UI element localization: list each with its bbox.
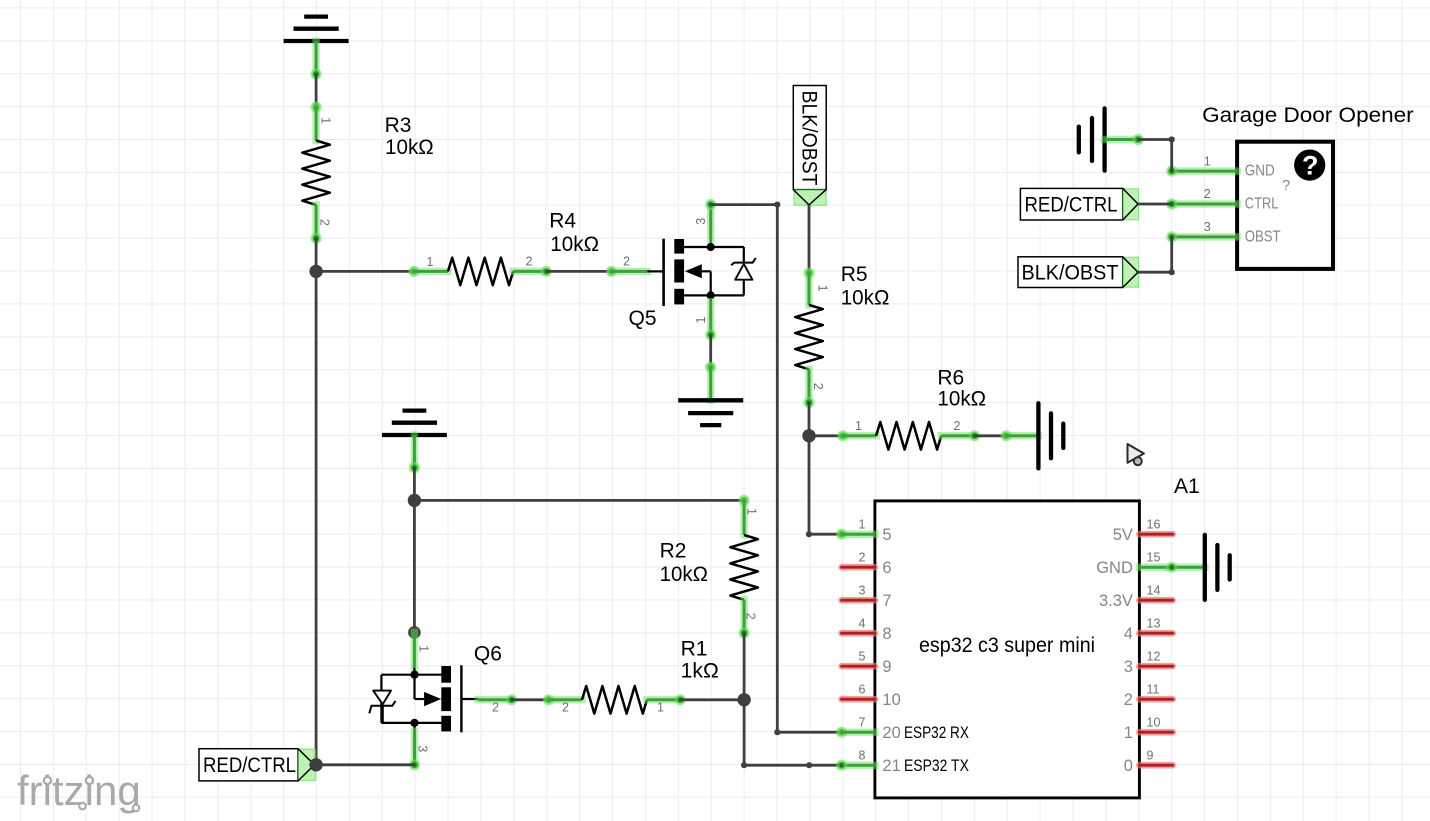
svg-text:5: 5 <box>882 526 891 544</box>
svg-text:R4: R4 <box>549 210 576 233</box>
pin 13 of A1 <box>1139 616 1172 633</box>
wire <box>312 107 320 140</box>
svg-text:16: 16 <box>1147 517 1161 531</box>
svg-text:R1: R1 <box>681 637 708 660</box>
svg-text:?: ? <box>1282 178 1290 194</box>
wire <box>744 760 847 771</box>
ground <box>1079 108 1105 170</box>
transistor Q6 <box>369 665 461 732</box>
svg-text:1: 1 <box>855 419 862 433</box>
pin name 2 <box>1124 691 1133 709</box>
svg-text:15: 15 <box>1147 550 1161 564</box>
wire <box>809 430 849 441</box>
svg-text:?: ? <box>1302 151 1319 181</box>
wire <box>808 436 811 534</box>
pin 2 of garage opener <box>1166 187 1237 209</box>
wire <box>741 700 747 769</box>
pin name 21 <box>882 757 969 775</box>
ground <box>1038 403 1063 468</box>
svg-text:13: 13 <box>1147 616 1161 630</box>
mouse cursor <box>1128 444 1144 465</box>
svg-text:14: 14 <box>1147 583 1161 597</box>
wire <box>316 266 419 277</box>
pin 4 of A1 <box>842 616 875 633</box>
svg-text:1: 1 <box>694 317 708 324</box>
svg-text:Q6: Q6 <box>474 643 502 666</box>
svg-text:RED/CTRL: RED/CTRL <box>1025 193 1118 216</box>
pin name OBST <box>1245 229 1281 246</box>
help icon <box>1294 150 1325 181</box>
pin 1 of garage opener <box>1166 154 1237 176</box>
label R4 10k <box>549 210 599 256</box>
pin 11 of A1 <box>1139 682 1172 699</box>
pin name 3.3V <box>1099 592 1133 610</box>
svg-text:1: 1 <box>858 517 865 531</box>
wire <box>315 271 318 764</box>
pin 3 of A1 <box>842 583 875 600</box>
wire <box>311 41 322 80</box>
pin name 10 <box>882 691 900 709</box>
svg-text:10kΩ: 10kΩ <box>937 387 986 410</box>
net label RED/CTRL <box>1020 188 1138 220</box>
svg-text:4: 4 <box>858 616 865 630</box>
node bendpoint <box>806 531 812 537</box>
wire <box>1138 237 1175 275</box>
svg-text:3: 3 <box>694 218 708 225</box>
svg-text:12: 12 <box>1147 649 1161 663</box>
svg-text:8: 8 <box>858 748 865 762</box>
svg-text:2: 2 <box>744 613 758 620</box>
svg-text:R6: R6 <box>937 367 964 390</box>
pin 1 of R4 <box>414 255 448 271</box>
svg-text:3: 3 <box>415 745 429 752</box>
pin 7 of A1 <box>842 715 875 732</box>
wire <box>409 435 420 473</box>
svg-text:3: 3 <box>1204 220 1211 234</box>
svg-text:10kΩ: 10kΩ <box>550 233 599 256</box>
ground <box>382 411 447 435</box>
svg-text:2: 2 <box>858 550 865 564</box>
svg-text:CTRL: CTRL <box>1245 196 1279 213</box>
pin 2 of R2 <box>739 600 758 639</box>
pin name CTRL <box>1245 196 1279 213</box>
svg-text:RED/CTRL: RED/CTRL <box>203 754 296 777</box>
label R2 10k <box>660 539 708 586</box>
label ? <box>1282 178 1290 194</box>
svg-text:6: 6 <box>858 682 865 696</box>
label R5 10k <box>841 263 890 310</box>
wire <box>316 763 415 766</box>
svg-text:10: 10 <box>882 691 900 709</box>
svg-text:1: 1 <box>1204 154 1211 168</box>
svg-text:A1: A1 <box>1174 475 1200 498</box>
pin name 0 <box>1124 757 1133 775</box>
svg-text:esp32 c3 super mini: esp32 c3 super mini <box>919 634 1095 657</box>
svg-text:OBST: OBST <box>1245 229 1281 246</box>
svg-text:Q5: Q5 <box>629 307 657 330</box>
svg-text:2: 2 <box>1204 187 1211 201</box>
wire <box>808 403 811 436</box>
wire <box>705 335 716 373</box>
pin 6 of A1 <box>842 682 875 699</box>
pin 1 of Q6 <box>414 632 430 674</box>
svg-text:R2: R2 <box>660 539 687 562</box>
net label BLK/OBST <box>1018 257 1139 288</box>
svg-text:3: 3 <box>1124 658 1133 676</box>
svg-text:10kΩ: 10kΩ <box>660 563 708 586</box>
pin 2 of Q5 (gate) <box>612 255 664 272</box>
wire <box>1006 432 1038 440</box>
label R6 10k <box>937 367 986 411</box>
svg-text:R3: R3 <box>385 114 412 137</box>
pin name GND <box>1245 163 1275 180</box>
transistor Q5 <box>664 239 756 306</box>
svg-text:Garage Door Opener: Garage Door Opener <box>1202 104 1414 127</box>
svg-text:ESP32 RX: ESP32 RX <box>904 724 969 742</box>
svg-text:4: 4 <box>1124 625 1133 643</box>
label Garage Door Opener <box>1202 104 1414 127</box>
wire <box>705 199 777 210</box>
svg-text:1: 1 <box>1124 724 1133 742</box>
wire <box>809 529 847 540</box>
wire <box>803 205 814 279</box>
wire <box>311 74 322 113</box>
svg-text:2: 2 <box>954 419 961 433</box>
svg-text:9: 9 <box>882 658 891 676</box>
pin 1 of R5 <box>809 273 830 305</box>
svg-text:20: 20 <box>882 724 900 742</box>
svg-text:8: 8 <box>882 625 891 643</box>
wire <box>512 694 555 705</box>
svg-text:10kΩ: 10kΩ <box>841 287 890 310</box>
node junction left rail <box>309 265 322 278</box>
pin 3 of Q6 <box>409 723 429 771</box>
pin name 5 <box>882 526 891 544</box>
svg-text:10: 10 <box>1147 715 1161 729</box>
svg-text:1: 1 <box>427 255 434 269</box>
wire <box>414 495 749 506</box>
pin name 3 <box>1124 658 1133 676</box>
svg-text:BLK/OBST: BLK/OBST <box>1022 261 1119 284</box>
label Q5 <box>629 307 657 330</box>
pin 1 of Q5 <box>694 295 716 340</box>
svg-text:1: 1 <box>417 645 431 652</box>
pin name 9 <box>882 658 891 676</box>
node junction RED/CTRL <box>309 758 322 771</box>
wire <box>776 205 779 733</box>
net label RED/CTRL <box>199 749 316 781</box>
pin 14 of A1 <box>1139 583 1172 600</box>
pin 2 of R4 <box>513 255 552 278</box>
wire <box>707 367 715 400</box>
pin 9 of A1 <box>1139 748 1172 765</box>
svg-text:2: 2 <box>623 255 630 269</box>
svg-text:7: 7 <box>858 715 865 729</box>
wire <box>975 430 1012 441</box>
svg-text:2: 2 <box>526 255 533 269</box>
pin 1 of R2 <box>744 500 758 535</box>
pin 8 of A1 <box>842 748 875 765</box>
svg-text:21: 21 <box>882 757 900 775</box>
resistor R5 <box>795 305 823 369</box>
node junction <box>408 494 421 507</box>
pin name 20 <box>882 724 969 742</box>
node junction <box>408 626 421 639</box>
svg-text:6: 6 <box>882 559 891 577</box>
pin 10 of A1 <box>1139 715 1172 732</box>
pin 2 of R5 <box>803 369 824 408</box>
pin 1 of A1 <box>842 517 875 534</box>
pin 12 of A1 <box>1139 649 1172 666</box>
svg-text:2: 2 <box>1124 691 1133 709</box>
wire <box>777 727 847 738</box>
ground <box>1205 535 1230 600</box>
svg-text:9: 9 <box>1147 748 1154 762</box>
svg-text:R5: R5 <box>841 263 868 286</box>
resistor R2 <box>730 535 758 600</box>
svg-text:GND: GND <box>1096 559 1133 577</box>
pin 2 of R3 <box>311 205 332 244</box>
wire <box>743 633 746 700</box>
pin 15 of A1 (GND) <box>1139 550 1204 572</box>
pin 3 of garage opener <box>1166 220 1237 242</box>
pin name 5V <box>1113 526 1133 544</box>
svg-text:5: 5 <box>858 649 865 663</box>
svg-text:1: 1 <box>657 701 664 715</box>
pin name 4 <box>1124 625 1133 643</box>
pin name 6 <box>882 559 891 577</box>
pin name 8 <box>882 625 891 643</box>
pin 2 of Q6 (gate) <box>461 694 517 714</box>
ground <box>678 400 743 425</box>
wire <box>315 238 318 271</box>
resistor R6 <box>876 422 941 450</box>
IC A1 esp32 c3 super mini body <box>875 501 1140 798</box>
net label BLK/OBST <box>793 86 826 206</box>
label R1 1k <box>681 637 719 682</box>
node bendpoint <box>774 202 780 208</box>
svg-text:ESP32 TX: ESP32 TX <box>904 757 969 775</box>
pin name 7 <box>882 592 891 610</box>
svg-text:2: 2 <box>562 701 569 715</box>
pin 16 of A1 <box>1139 517 1172 534</box>
svg-text:1kΩ: 1kΩ <box>681 659 719 682</box>
node junction R5/R6 <box>802 429 815 442</box>
resistor R3 <box>302 141 330 205</box>
svg-text:0: 0 <box>1124 757 1133 775</box>
pin name GND <box>1096 559 1133 577</box>
label R3 10k <box>385 114 434 159</box>
ground <box>284 17 349 41</box>
resistor R4 <box>448 258 513 286</box>
pin 2 of R6 <box>941 419 980 441</box>
wire <box>413 500 416 632</box>
pin 5 of A1 <box>842 649 875 666</box>
resistor R1 <box>582 686 647 714</box>
wire <box>1138 136 1174 171</box>
node bendpoint <box>774 729 780 735</box>
wire <box>680 698 744 701</box>
svg-text:1: 1 <box>745 508 759 515</box>
pin 3 of Q5 <box>694 205 711 247</box>
mystery part U1 body <box>1237 142 1333 269</box>
svg-text:1: 1 <box>319 117 333 124</box>
wire <box>1138 203 1172 206</box>
pin 1 of R6 <box>843 419 876 436</box>
pin 1 of R3 <box>319 117 333 124</box>
svg-text:5V: 5V <box>1113 526 1133 544</box>
node junction R1/R2 <box>737 693 750 706</box>
svg-text:3: 3 <box>858 583 865 597</box>
pin 1 of R1 <box>647 694 686 714</box>
label A1 <box>1174 475 1200 498</box>
svg-text:2: 2 <box>318 219 332 226</box>
svg-text:7: 7 <box>882 592 891 610</box>
svg-text:2: 2 <box>492 701 499 715</box>
wire <box>546 266 617 277</box>
svg-text:3.3V: 3.3V <box>1099 592 1133 610</box>
svg-text:1: 1 <box>816 285 830 292</box>
svg-text:BLK/OBST: BLK/OBST <box>797 91 820 186</box>
pin 2 of A1 <box>842 550 875 567</box>
wire <box>1105 134 1144 145</box>
svg-text:GND: GND <box>1245 163 1275 180</box>
label Q6 <box>474 643 502 666</box>
wire <box>413 468 416 501</box>
svg-text:10kΩ: 10kΩ <box>385 136 434 159</box>
svg-text:2: 2 <box>811 383 825 390</box>
svg-text:11: 11 <box>1147 682 1160 696</box>
pin 2 of R1 <box>549 700 583 715</box>
pin name 1 <box>1124 724 1133 742</box>
fritzing logo <box>17 767 141 814</box>
